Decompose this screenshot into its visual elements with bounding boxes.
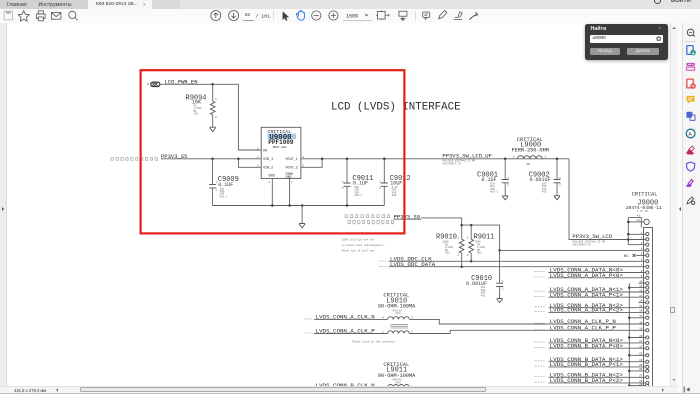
net label LVDS_CONN_A_DATA_P<2> bbox=[535, 307, 646, 314]
pin numbers bbox=[639, 231, 643, 386]
svg-text:Panel has 2K pull-ups: Panel has 2K pull-ups bbox=[342, 248, 375, 252]
bus taps (dashed squares) before PP3V3_S5 bbox=[111, 158, 158, 161]
wire LCD_PWR_EN horizontal bbox=[164, 83, 239, 85]
bus taps (dashed squares) before PP3V3_S0 bbox=[345, 215, 394, 225]
svg-text:3: 3 bbox=[257, 165, 259, 168]
svg-text:1: 1 bbox=[257, 147, 259, 150]
svg-text:20: 20 bbox=[639, 335, 643, 338]
svg-text:2: 2 bbox=[257, 156, 259, 159]
wire choke out P to connector bbox=[409, 330, 645, 333]
svg-text:FERR-250-OHM: FERR-250-OHM bbox=[512, 148, 549, 154]
svg-text:402: 402 bbox=[194, 113, 199, 116]
svg-text:0R: 0R bbox=[527, 163, 531, 166]
node junction R9010 top bbox=[460, 224, 463, 227]
ground below U9000 rail bbox=[299, 224, 305, 228]
svg-text:2: 2 bbox=[457, 254, 459, 257]
svg-text:2: 2 bbox=[507, 184, 509, 187]
svg-text:26: 26 bbox=[639, 368, 643, 371]
svg-text:MFET-2E2: MFET-2E2 bbox=[273, 146, 287, 149]
node junction at C9002 bbox=[556, 158, 559, 161]
svg-text:VOUT_1: VOUT_1 bbox=[286, 158, 298, 162]
svg-text:21: 21 bbox=[639, 340, 643, 343]
svg-text:PP3V3_SW_LCD: PP3V3_SW_LCD bbox=[572, 233, 612, 240]
net label LVDS_CONN_B_DATA_N<0> bbox=[535, 337, 646, 344]
svg-text:402-1: 402-1 bbox=[354, 194, 362, 197]
node junction 42 tap bbox=[627, 221, 630, 224]
tab bar bbox=[0, 0, 700, 9]
svg-text:402: 402 bbox=[481, 294, 486, 297]
connector J9000 body bbox=[644, 228, 653, 388]
common-mode choke L9010 bbox=[378, 293, 416, 334]
svg-text:402: 402 bbox=[445, 252, 450, 255]
svg-text:42: 42 bbox=[637, 219, 641, 222]
svg-text:NC: NC bbox=[624, 255, 629, 259]
svg-text:F.GT-1M: F.GT-1M bbox=[637, 210, 648, 213]
svg-text:100K pull-ups are for: 100K pull-ups are for bbox=[342, 238, 375, 242]
ground below C9010 bbox=[497, 299, 503, 303]
svg-text:VOUT_2: VOUT_2 bbox=[286, 167, 298, 171]
common-mode choke L9011 bbox=[378, 362, 416, 389]
svg-text:2: 2 bbox=[379, 187, 381, 190]
svg-text:5: 5 bbox=[302, 164, 304, 167]
node junction R9011 bottom on DDC_CLK bbox=[470, 260, 473, 263]
wire U9000 THRM pin to rail bbox=[289, 178, 291, 205]
wire stubs unconnected rows bbox=[639, 283, 646, 302]
wire stub pin 4 bbox=[639, 249, 646, 251]
bus taps before LVDS_DDC_CLK bbox=[379, 260, 387, 262]
wire ground bus vertical bbox=[628, 283, 630, 386]
node junction C9011 top bbox=[346, 158, 349, 161]
net label LVDS_CONN_B_DATA_P<2> bbox=[535, 377, 646, 384]
svg-text:402-1: 402-1 bbox=[220, 195, 228, 198]
svg-text:402: 402 bbox=[542, 191, 547, 194]
svg-text:1: 1 bbox=[513, 156, 515, 159]
svg-text:PAD: PAD bbox=[286, 175, 292, 179]
svg-text:11: 11 bbox=[639, 285, 643, 288]
svg-text:CRITICAL: CRITICAL bbox=[632, 192, 658, 198]
svg-text:1: 1 bbox=[559, 177, 561, 180]
wire LVDS_DDC_CLK bbox=[389, 260, 639, 262]
red annotation rectangle bbox=[141, 70, 405, 233]
svg-text:603: 603 bbox=[392, 194, 397, 197]
wire PP3V3_S5 to U9000 VIN_1 bbox=[161, 158, 261, 160]
svg-text:6: 6 bbox=[302, 156, 304, 159]
node junction R9010 bottom on DDC_DATA bbox=[460, 265, 463, 268]
svg-text:10: 10 bbox=[639, 281, 643, 284]
net label LVDS_CONN_A_DATA_P<1> bbox=[535, 291, 646, 298]
net label LVDS_CONN_A_CLK_P_P bbox=[535, 325, 617, 332]
wire R9094 top lead bbox=[212, 84, 214, 101]
wire pull-up rail to connector pin 4 bbox=[500, 249, 639, 251]
wire LVDS_CONN_B_CLK_N into choke bbox=[314, 386, 388, 388]
horizontal scrollbar bbox=[0, 386, 677, 394]
capacitor C9002 bbox=[529, 159, 561, 196]
svg-text:22: 22 bbox=[639, 346, 643, 349]
svg-text:4: 4 bbox=[268, 181, 270, 184]
svg-text:VOLTAGE=3.3V: VOLTAGE=3.3V bbox=[572, 243, 591, 246]
wire stubs pins 1-3 bbox=[628, 234, 645, 244]
svg-text:7: 7 bbox=[291, 181, 293, 184]
wire pin 41 loop bbox=[628, 217, 641, 227]
svg-text:1: 1 bbox=[467, 237, 469, 240]
svg-text:41: 41 bbox=[637, 214, 641, 217]
note text pull-ups bbox=[342, 238, 386, 253]
svg-text:no-panel case (development).: no-panel case (development). bbox=[342, 243, 386, 247]
svg-text:1: 1 bbox=[379, 180, 381, 183]
svg-text:2: 2 bbox=[215, 116, 217, 119]
svg-text:VOLTAGE=3.3V: VOLTAGE=3.3V bbox=[442, 162, 461, 165]
bus taps before LVDS_DDC_DATA bbox=[379, 265, 387, 267]
wire PP3V3_S0 to pull-up rail bbox=[394, 218, 500, 251]
svg-text:Place close to the connector: Place close to the connector bbox=[352, 340, 396, 344]
svg-text:LCD (LVDS) INTERFACE: LCD (LVDS) INTERFACE bbox=[331, 102, 461, 114]
wire pin 42 to mounting circle bbox=[628, 221, 644, 223]
svg-text:2: 2 bbox=[467, 254, 469, 257]
ground bus taps with junctions bbox=[628, 286, 646, 387]
svg-text:2: 2 bbox=[502, 287, 504, 290]
svg-text:24: 24 bbox=[639, 359, 643, 362]
svg-text:(MA): (MA) bbox=[395, 311, 402, 315]
svg-text:13: 13 bbox=[639, 295, 643, 298]
wire ground stem bbox=[301, 206, 303, 224]
net label LVDS_CONN_A_DATA_N<0> bbox=[535, 267, 646, 274]
node junction C9010 top bbox=[498, 249, 501, 252]
svg-text:27: 27 bbox=[639, 375, 643, 378]
net label LVDS_CONN_B_DATA_N<2> bbox=[535, 372, 646, 379]
capacitor C9009 bbox=[209, 159, 239, 206]
svg-text:402: 402 bbox=[477, 252, 482, 255]
bus taps before LVDS_CONN_B_CLK_N bbox=[305, 385, 313, 387]
ground below C9002 bbox=[554, 196, 560, 200]
connector J9000 header bbox=[626, 192, 662, 213]
capacitor C9010 bbox=[466, 250, 504, 298]
svg-text:2: 2 bbox=[342, 187, 344, 190]
svg-text:18: 18 bbox=[639, 321, 643, 324]
wire branch to VIN_2 bbox=[238, 159, 261, 168]
resistor R9010 bbox=[436, 225, 464, 267]
svg-text:1: 1 bbox=[457, 237, 459, 240]
svg-text:15: 15 bbox=[639, 305, 643, 308]
node junction C9012 top bbox=[383, 158, 386, 161]
inductor L9000 (ferrite bead) bbox=[512, 137, 549, 166]
wire LVDS_CONN_A_CLK_N into choke bbox=[314, 318, 388, 320]
svg-text:14: 14 bbox=[639, 300, 643, 303]
svg-text:VIN_1: VIN_1 bbox=[263, 158, 273, 162]
right sidebar bbox=[682, 23, 700, 393]
resistor R9094 bbox=[186, 94, 218, 119]
svg-text:16: 16 bbox=[639, 310, 643, 313]
capacitor C9012 bbox=[379, 159, 411, 206]
svg-text:2: 2 bbox=[215, 189, 217, 192]
wire from L9000 down to connector feed bbox=[569, 159, 628, 240]
connector symbol LCD_PWR_EN (off-page arrow) bbox=[147, 82, 164, 86]
svg-text:12: 12 bbox=[639, 289, 643, 292]
svg-text:(MA): (MA) bbox=[395, 380, 402, 384]
bus taps before LVDS_CONN_A_CLK_P bbox=[305, 332, 313, 334]
bus taps before LVDS_CONN_A_CLK_N bbox=[305, 318, 313, 320]
ground below C9001 bbox=[502, 196, 508, 200]
wire choke out N to connector bbox=[409, 319, 645, 324]
wire bottom ground rail bbox=[213, 205, 385, 207]
node junction PP3V3_SW_LCD feed bbox=[627, 238, 630, 241]
svg-text:2: 2 bbox=[545, 156, 547, 159]
wire power bus vertical bbox=[627, 217, 629, 244]
wire LVDS_CONN_A_CLK_P into choke bbox=[314, 333, 388, 335]
capacitor C9011 bbox=[342, 159, 374, 206]
svg-text:0.001UF: 0.001UF bbox=[530, 177, 551, 183]
svg-text:PP3V3_SW_LCD_UF: PP3V3_SW_LCD_UF bbox=[442, 153, 492, 160]
svg-text:17: 17 bbox=[639, 315, 643, 318]
net label LVDS_CONN_A_DATA_N<2> bbox=[535, 302, 646, 309]
svg-text:2: 2 bbox=[559, 184, 561, 187]
wire LVDS_DDC_DATA bbox=[389, 266, 639, 268]
wire from LCD_PWR_EN down to U9000 ON pin bbox=[238, 84, 261, 150]
svg-text:GND: GND bbox=[269, 174, 275, 178]
svg-text:19: 19 bbox=[639, 328, 643, 331]
net label LVDS_CONN_B_DATA_N<1> bbox=[535, 356, 646, 363]
node junction VOUT_2 to rail bbox=[321, 158, 324, 161]
find dialog bbox=[585, 24, 668, 60]
no-connect pin 5 bbox=[624, 254, 646, 259]
net label LVDS_CONN_A_DATA_P<0> bbox=[535, 272, 646, 279]
svg-text:1: 1 bbox=[507, 177, 509, 180]
node junction at VIN_2 branch bbox=[237, 158, 240, 161]
svg-text:1: 1 bbox=[215, 181, 217, 184]
svg-text:1: 1 bbox=[502, 281, 504, 284]
wire stubs DDC pins bbox=[639, 261, 646, 266]
net label LVDS_CONN_A_CLK_P_N bbox=[535, 318, 617, 325]
op-amp/regulator U9000 body bbox=[261, 127, 301, 179]
wire VOUT_2 joining rail bbox=[301, 159, 322, 168]
mounting pad circle pin 42 bbox=[644, 219, 649, 224]
net label LVDS_CONN_A_DATA_N<1> bbox=[535, 286, 646, 293]
wire VOUT_1 rail bbox=[301, 158, 569, 160]
connector pin circles bbox=[646, 232, 649, 387]
node junction pin1 tap bbox=[627, 233, 630, 236]
node junction at C9009 bbox=[211, 158, 214, 161]
net label LVDS_CONN_B_DATA_P<0> bbox=[535, 342, 646, 349]
node junctions on ground rail bbox=[271, 204, 274, 207]
svg-text:ON: ON bbox=[263, 149, 267, 153]
wire U9000 GND pin to rail bbox=[271, 178, 273, 205]
node junction at C9001 bbox=[504, 158, 507, 161]
resistor R9011 bbox=[467, 225, 495, 261]
toolbar bbox=[0, 9, 700, 24]
svg-text:402-1: 402-1 bbox=[490, 191, 498, 194]
svg-text:LVDS_CONN_A_CLK_P_P: LVDS_CONN_A_CLK_P_P bbox=[550, 325, 617, 332]
capacitor C9001 bbox=[477, 159, 509, 196]
svg-text:A: A bbox=[689, 131, 693, 137]
svg-text:VIN_2: VIN_2 bbox=[263, 167, 273, 171]
net label LVDS_CONN_B_DATA_P<1> bbox=[535, 361, 646, 368]
ground below R9094 bbox=[210, 127, 216, 131]
wire R9094 bottom lead bbox=[212, 115, 214, 127]
vertical scrollbar bbox=[670, 23, 678, 386]
svg-text:1: 1 bbox=[342, 180, 344, 183]
svg-text:23: 23 bbox=[639, 353, 643, 356]
svg-text:1: 1 bbox=[215, 98, 217, 101]
node junction at R9094 top bbox=[211, 83, 214, 86]
svg-text:25: 25 bbox=[639, 364, 643, 367]
node junction R9011 top bbox=[470, 224, 473, 227]
